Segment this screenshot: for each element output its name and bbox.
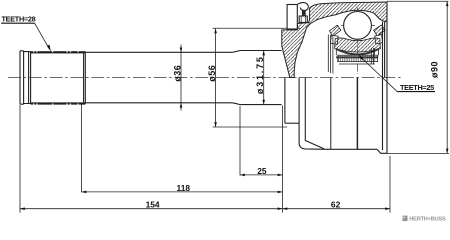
boot clamp buckle curl bbox=[298, 3, 309, 23]
inner race bottom thick arc bbox=[336, 49, 379, 55]
svg-text:25: 25 bbox=[257, 166, 267, 176]
shaft body bbox=[85, 52, 232, 103]
spline section TEETH=28 bbox=[31, 51, 86, 104]
svg-text:TEETH=28: TEETH=28 bbox=[2, 15, 36, 24]
dimension 25 bbox=[240, 166, 283, 176]
extension line x81.5 bbox=[81, 105, 83, 193]
dimension 62 bbox=[283, 200, 391, 210]
dimension line d36 bbox=[172, 45, 182, 111]
boot clamp flange body bbox=[287, 5, 297, 30]
inner race side edges bbox=[336, 49, 378, 55]
logo herth+buss bbox=[403, 216, 447, 223]
cage wedge right bbox=[374, 25, 386, 36]
cage lower quad left bbox=[330, 35, 338, 44]
outer race hatched section (top half) bbox=[282, 2, 387, 78]
svg-text:TEETH=25: TEETH=25 bbox=[400, 83, 434, 92]
dimension line d31.75 bbox=[255, 51, 265, 105]
extension line x282.5 bbox=[282, 106, 284, 213]
svg-text:ø36: ø36 bbox=[172, 65, 182, 82]
dimension 154 bbox=[20, 200, 283, 210]
main axis centerline bbox=[8, 77, 402, 79]
extension line x20 bbox=[19, 105, 21, 213]
cage lower quad right bbox=[375, 35, 383, 44]
svg-text:118: 118 bbox=[177, 183, 191, 193]
svg-text:ø31.75: ø31.75 bbox=[255, 55, 265, 94]
housing bottom exterior profile bbox=[285, 78, 387, 154]
svg-text:154: 154 bbox=[146, 200, 160, 210]
label TEETH=28 bbox=[1, 15, 51, 52]
dimension line d90 bbox=[386, 1, 449, 153]
cage wedge left bbox=[329, 25, 341, 36]
inner race hatched bbox=[335, 38, 381, 52]
svg-text:ø90: ø90 bbox=[430, 61, 440, 78]
extension lines for d56 bbox=[213, 28, 301, 127]
label TEETH=25 bbox=[359, 55, 436, 92]
spline band under race TEETH=25 bbox=[336, 55, 378, 64]
ball vertical centerline bbox=[357, 8, 359, 75]
ball bbox=[344, 12, 372, 40]
dimension 118 bbox=[82, 183, 283, 193]
svg-text:HERTH+BUSS: HERTH+BUSS bbox=[409, 217, 446, 223]
shaft step chamfer to boot seat bbox=[232, 51, 281, 105]
extension line x390 bbox=[389, 156, 391, 213]
interior vertical edges right of race bbox=[371, 48, 374, 64]
shaft left end cap bbox=[20, 51, 31, 104]
housing bottom groove verticals bbox=[331, 78, 358, 150]
svg-text:62: 62 bbox=[331, 200, 341, 210]
interior vertical edges left of race bbox=[328, 35, 333, 74]
ball horizontal centerline bbox=[341, 24, 375, 26]
housing back faces bbox=[383, 2, 388, 153]
dimension line d56 bbox=[207, 29, 217, 128]
svg-text:ø56: ø56 bbox=[207, 65, 217, 82]
extension line x240 bbox=[239, 106, 241, 176]
